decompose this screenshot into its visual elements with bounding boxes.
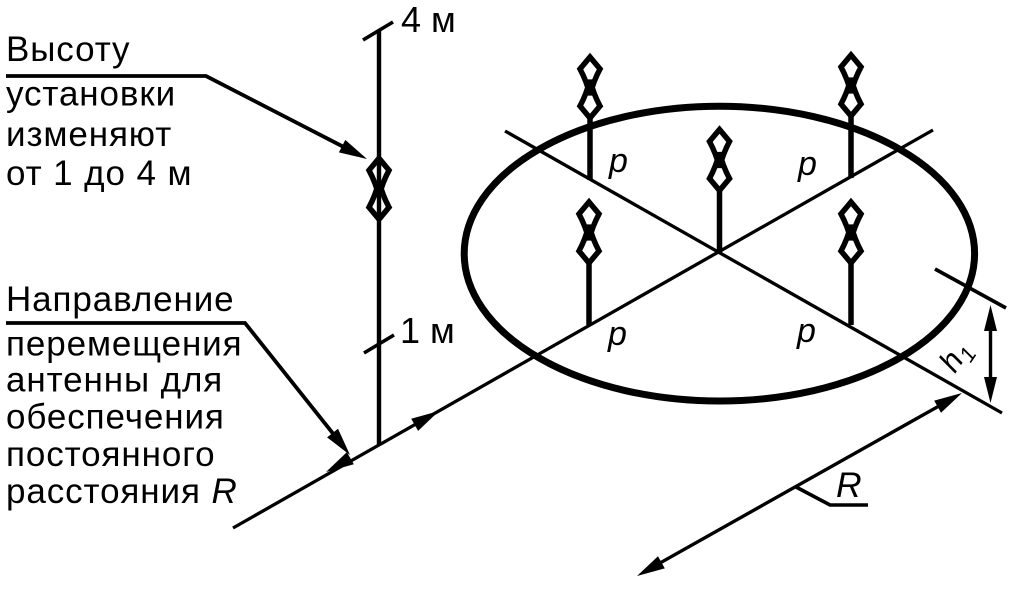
antenna p lower-left xyxy=(579,202,599,325)
antenna on mast (double diamond) xyxy=(369,158,389,219)
R label leader shelf xyxy=(796,487,868,505)
svg-text:4 м: 4 м xyxy=(401,0,456,40)
svg-text:p: p xyxy=(796,312,816,350)
mast vertical line xyxy=(377,30,381,446)
svg-text:Высоту: Высоту xyxy=(6,30,130,69)
svg-text:перемещения: перемещения xyxy=(6,325,242,364)
svg-text:Направление: Направление xyxy=(6,280,235,319)
svg-text:R: R xyxy=(836,465,862,505)
antenna p center xyxy=(710,130,730,253)
svg-text:изменяют: изменяют xyxy=(6,115,172,154)
antenna p lower-right xyxy=(841,202,861,325)
svg-text:p: p xyxy=(797,145,817,183)
svg-text:установки: установки xyxy=(6,75,176,114)
svg-text:обеспечения: обеспечения xyxy=(6,398,225,437)
svg-text:расстояния R: расстояния R xyxy=(6,472,238,511)
h1 dimension vertical double arrow xyxy=(989,329,992,379)
diagonal axis 2 (NW-SE) xyxy=(505,131,1002,413)
svg-text:h1: h1 xyxy=(932,334,982,381)
antenna p upper-left xyxy=(580,57,600,180)
diagonal axis 1 (SW-NE) xyxy=(233,130,933,528)
h1 extension line xyxy=(935,269,1006,308)
antenna p upper-right xyxy=(841,55,861,178)
svg-text:p: p xyxy=(607,315,627,353)
svg-text:от 1 до 4 м: от 1 до 4 м xyxy=(6,154,192,193)
measurement area ellipse xyxy=(464,106,974,401)
tick 1 m xyxy=(364,335,394,353)
tick 4 m xyxy=(363,22,393,40)
movement double arrow on axis 1: SW head xyxy=(326,452,354,472)
movement double arrow on axis 1: NE head xyxy=(411,411,439,431)
leader from text block 2 to movement axis xyxy=(6,323,335,436)
svg-text:p: p xyxy=(608,142,628,180)
R dimension line with double arrows xyxy=(658,405,941,564)
leader from text block 1 to mast antenna xyxy=(6,76,346,148)
svg-text:1 м: 1 м xyxy=(400,310,455,351)
svg-text:антенны для: антенны для xyxy=(6,361,223,400)
svg-text:постоянного: постоянного xyxy=(6,435,215,474)
